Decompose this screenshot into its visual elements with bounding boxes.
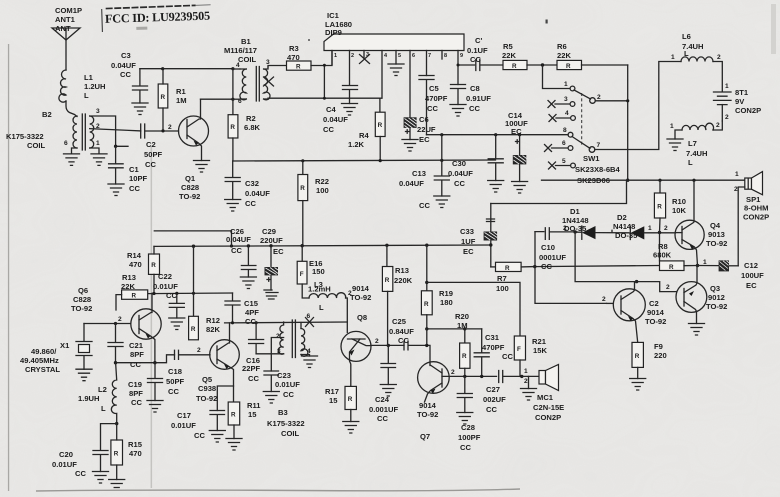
pin 9 lead [457,51,459,85]
svg-text:1.2K: 1.2K [348,140,365,149]
transistor Q1 C828 [179,99,209,201]
svg-text:22K: 22K [557,51,571,60]
wire contact 7 to L6 [595,62,681,150]
svg-text:15K: 15K [533,346,547,355]
wire R5/R6 node down to switch pole 1 [543,65,570,89]
wire C2 to Q1 base [145,130,179,132]
svg-text:EC: EC [463,247,474,256]
resistor R14 470 [127,246,160,293]
svg-text:L: L [84,91,89,100]
svg-text:002UF: 002UF [483,395,506,404]
capacitor C8 0.91UF [451,84,492,113]
svg-text:C30: C30 [452,159,466,168]
svg-text:COIL: COIL [238,55,257,64]
svg-text:C18: C18 [168,367,182,376]
svg-text:4: 4 [236,62,240,69]
capacitor C4 0.04UF [323,86,358,135]
svg-text:470PF: 470PF [425,94,448,103]
svg-text:L: L [688,158,693,167]
ground C24 [380,385,396,397]
svg-text:C938: C938 [198,384,216,393]
capacitor C20 0.01UF [52,424,117,478]
svg-text:3: 3 [277,348,281,355]
resistor R17 15 [325,386,356,421]
svg-text:Q3: Q3 [710,284,720,293]
svg-text:CC: CC [130,360,141,369]
antenna ANT1 [52,6,82,40]
svg-text:R: R [657,204,662,211]
capacitor C18 50PF [166,350,210,396]
svg-text:Q6: Q6 [78,286,88,295]
svg-text:B3: B3 [278,408,288,417]
svg-text:C2N-15E: C2N-15E [533,403,564,412]
svg-text:0.04UF: 0.04UF [399,179,424,188]
svg-text:R2: R2 [246,114,256,123]
svg-text:C1: C1 [129,165,139,174]
transistor Q8 9014 [341,284,371,386]
svg-text:R: R [378,122,383,129]
wire antenna to L1 [65,40,67,70]
svg-text:0.01UF: 0.01UF [171,421,196,430]
switch SW1 contact 6 with X [545,140,573,152]
svg-text:100: 100 [496,284,509,293]
svg-text:L1: L1 [84,73,94,82]
wire to microphone [522,375,539,377]
svg-text:C29: C29 [262,227,276,236]
svg-text:R: R [635,353,640,360]
svg-text:22PF: 22PF [242,364,261,373]
svg-text:7: 7 [597,142,601,149]
svg-text:CC: CC [398,336,409,345]
svg-text:R11: R11 [247,401,261,410]
svg-text:L7: L7 [688,139,697,148]
svg-text:C4: C4 [326,105,336,114]
svg-text:R21: R21 [532,337,547,346]
svg-text:R: R [462,353,467,360]
wire mic ground stub [528,376,530,388]
svg-text:220UF: 220UF [260,236,283,245]
svg-text:3: 3 [564,96,568,103]
svg-text:CC: CC [470,55,481,64]
svg-text:1: 1 [670,123,674,130]
svg-text:470: 470 [129,260,142,269]
svg-text:C828: C828 [73,295,91,304]
svg-text:0.91UF: 0.91UF [466,94,491,103]
svg-text:CON2P: CON2P [535,413,561,422]
svg-text:SK23X8-6B4: SK23X8-6B4 [575,165,621,174]
battery BT1 9V [714,83,762,121]
node diode output [658,231,661,234]
svg-text:1M: 1M [457,321,468,330]
wire B1 pin4 to bias bus [233,68,240,70]
capacitor C24 0.001UF [369,345,398,423]
svg-text:CC: CC [460,443,471,452]
svg-text:TO-92: TO-92 [71,304,92,313]
ground C30 [488,181,504,193]
node Q3 drive tap [573,230,576,233]
svg-text:2: 2 [734,186,738,193]
svg-text:3: 3 [366,52,369,58]
transistor Q5 C938 [196,323,239,403]
wire L3 to Q8 base [346,298,348,332]
svg-text:EC: EC [419,135,430,144]
svg-text:C22: C22 [158,272,172,281]
svg-text:R1: R1 [176,87,186,96]
svg-text:F: F [517,346,521,353]
svg-text:C2: C2 [146,140,156,149]
svg-text:15: 15 [248,410,257,419]
svg-text:0.04UF: 0.04UF [226,235,251,244]
diode D2 N4148 [613,213,676,240]
svg-text:COIL: COIL [281,429,300,438]
svg-text:22K: 22K [121,282,135,291]
svg-text:R: R [348,396,353,403]
svg-text:0.04UF: 0.04UF [245,189,270,198]
ground R9 [630,379,646,391]
inductor L1 1.2UH [59,70,106,102]
svg-text:0001UF: 0001UF [539,253,566,262]
svg-text:0.01UF: 0.01UF [153,282,178,291]
resistor R19 180 [421,245,453,329]
svg-text:5: 5 [398,53,401,59]
wire B2 pin2 to C2 [90,129,141,131]
svg-text:22K: 22K [502,51,516,60]
wire switch feed box line [491,180,627,203]
ground B2 right [91,154,107,166]
svg-text:SW1: SW1 [583,154,600,163]
pin number ticks [334,52,463,59]
ground B2 left [64,154,80,166]
svg-text:Q1: Q1 [185,174,196,183]
svg-text:8: 8 [444,53,447,59]
ground C19 [147,401,163,413]
ground C22 [169,318,185,330]
svg-text:R12: R12 [206,316,220,325]
ground C6 [402,140,418,152]
svg-text:9V: 9V [735,97,745,106]
svg-text:5: 5 [562,158,566,165]
svg-text:0.01UF: 0.01UF [275,380,300,389]
svg-text:CC: CC [245,199,256,208]
wire Q3 base drive [575,232,676,292]
svg-text:470: 470 [129,449,142,458]
svg-text:C6: C6 [419,115,429,124]
svg-text:2: 2 [716,122,720,129]
ground C8 [450,105,466,117]
svg-text:CC: CC [166,291,177,300]
resistor R7 100 [491,262,535,293]
svg-text:TO-92: TO-92 [196,394,217,403]
svg-text:R3: R3 [289,44,299,53]
svg-text:2: 2 [666,284,670,291]
svg-text:0.1UF: 0.1UF [467,46,488,55]
svg-text:2: 2 [118,316,122,323]
svg-text:MC1: MC1 [537,393,554,402]
svg-text:470PF: 470PF [482,343,505,352]
svg-text:R: R [512,63,517,70]
svg-text:TO-92: TO-92 [417,410,438,419]
svg-text:C20: C20 [59,450,73,459]
svg-text:R: R [424,301,429,308]
svg-text:CON2P: CON2P [735,106,761,115]
svg-text:B1: B1 [241,37,251,46]
no-connect X on B1 secondary [264,77,274,86]
pin 1 stub [331,51,333,65]
svg-text:CC: CC [377,414,388,423]
svg-text:100: 100 [316,186,329,195]
svg-text:EC: EC [273,247,284,256]
svg-text:50PF: 50PF [166,377,185,386]
svg-text:R6: R6 [557,42,567,51]
wire R3 to IC pin1 [311,51,332,66]
svg-text:Q8: Q8 [357,313,367,322]
node L2 bottom [115,422,118,425]
svg-text:C8: C8 [470,84,480,93]
svg-text:2: 2 [197,347,201,354]
capacitor C7 0.1UF [467,36,503,71]
svg-text:C': C' [475,36,482,45]
wire R7 output node [534,266,658,267]
svg-text:220K: 220K [394,276,413,285]
svg-text:B2: B2 [42,110,52,119]
svg-text:CC: CC [75,469,86,478]
svg-text:C33: C33 [460,227,474,236]
svg-text:6: 6 [412,53,415,59]
svg-text:2: 2 [451,369,455,376]
wire Q7 collector riser [427,329,430,364]
svg-text:2: 2 [725,114,729,121]
switch SW1 contact 2 [590,98,596,104]
svg-text:8PF: 8PF [129,389,143,398]
svg-text:C23: C23 [277,371,291,380]
svg-text:2: 2 [168,124,172,131]
svg-text:R7: R7 [497,274,507,283]
svg-text:R: R [151,262,156,269]
svg-text:ANT1: ANT1 [55,15,76,24]
wire Q5 emitter tee [217,386,233,411]
capacitor C14 100UF electrolytic [505,111,528,182]
wire C10 branch vertical [535,232,607,304]
svg-text:2: 2 [375,338,379,345]
svg-text:15: 15 [329,396,338,405]
wire Q7 base line to mic [442,375,497,377]
svg-text:2: 2 [276,333,280,340]
capacitor C16 22PF [242,323,264,383]
svg-text:0.84UF: 0.84UF [389,327,414,336]
svg-text:DO-35: DO-35 [615,231,638,240]
svg-text:CC: CC [454,179,465,188]
capacitor C22 0.01UF [153,272,184,318]
pin 7 lead to C5 [426,51,428,76]
svg-text:DO-35: DO-35 [564,224,587,233]
FCC ID box [102,5,212,32]
wire Q1 collector to B1 pin6 [201,98,233,100]
resistor R18 220K [382,245,412,345]
capacitor C23 0.01UF [264,371,300,399]
svg-text:6: 6 [64,140,68,147]
svg-text:C27: C27 [486,385,500,394]
wire B+ rail vertical [627,65,629,180]
speaker SP1 8-OHM [734,171,769,222]
capacitor C33 1UF electrolytic [460,227,498,267]
svg-text:CC: CC [248,374,259,383]
svg-text:8-OHM: 8-OHM [744,204,768,213]
resistor R22 100 [298,161,329,246]
svg-text:CC: CC [168,387,179,396]
op-amp U1 IC1 LA1680 body [324,11,464,51]
pin 4 lead [380,51,382,99]
svg-text:470: 470 [287,53,300,62]
svg-text:9013: 9013 [708,230,725,239]
capacitor C31 470PF [474,329,513,377]
svg-text:8PF: 8PF [130,350,144,359]
svg-text:L: L [684,49,689,58]
resistor R9 220 [632,342,667,379]
resistor R1 1M [158,69,186,131]
capacitor C15 4PF [225,293,259,326]
wire L1 to B2 [66,101,77,117]
resistor R20 1M [455,312,470,376]
svg-text:TO-92: TO-92 [706,239,727,248]
svg-text:100PF: 100PF [458,433,481,442]
svg-text:C10: C10 [541,243,555,252]
svg-text:Q5: Q5 [202,375,213,384]
svg-text:CRYSTAL: CRYSTAL [25,365,60,374]
microphone MC1 [533,365,564,423]
svg-text:4PF: 4PF [245,308,259,317]
wire R6 to B+ rail corner [582,64,628,66]
svg-text:R10: R10 [672,197,686,206]
wire L6 to battery [713,62,722,92]
svg-text:TO-92: TO-92 [645,317,666,326]
svg-text:1: 1 [524,368,528,375]
svg-text:1.2mH: 1.2mH [308,285,331,294]
svg-text:2: 2 [351,53,354,59]
resistor R6 22K [557,42,582,70]
switch SW1 contact 1 [570,86,575,91]
wire B1 pin6 [233,98,240,100]
ground X1 [76,369,92,381]
svg-text:K175-3322: K175-3322 [6,132,44,141]
wire lower bus [154,245,491,246]
svg-text:0.04UF: 0.04UF [111,61,136,70]
wire R5 to R6 [527,64,557,66]
ground C28 [457,413,473,425]
inductor L6 7.4UH [671,32,721,62]
svg-text:2: 2 [524,378,528,385]
polarity mark C33 [487,219,495,222]
svg-text:R20: R20 [455,312,469,321]
wire pin1 net vertical [323,65,325,99]
wire speaker supply bus [542,179,745,181]
svg-text:M116/117: M116/117 [224,46,257,55]
svg-text:C3: C3 [121,51,131,60]
svg-text:CC: CC [419,201,430,210]
switch SW1 contact 7 [589,147,595,153]
svg-text:TO-92: TO-92 [179,192,200,201]
svg-text:6.8K: 6.8K [244,123,261,132]
capacitor C12 100UF electrolytic [698,260,765,290]
svg-text:50PF: 50PF [144,150,163,159]
svg-text:R5: R5 [503,42,513,51]
svg-text:R: R [161,94,166,101]
wire Q8 collector line [371,344,404,346]
resistor R5 22K [502,42,527,70]
svg-text:1.9UH: 1.9UH [78,394,100,403]
wire stub link into bus [154,231,231,246]
svg-text:1.2UH: 1.2UH [84,82,106,91]
svg-text:7: 7 [428,53,431,59]
resistor R12 82K [189,246,221,340]
svg-text:C19: C19 [128,380,142,389]
transistor Q3 9012 [666,266,727,324]
svg-text:0.001UF: 0.001UF [369,405,398,414]
svg-text:F: F [300,271,304,278]
wire C16 to B3 bottom [256,353,284,355]
svg-text:100UF: 100UF [741,271,764,280]
svg-text:DIP9: DIP9 [325,28,342,37]
svg-text:8T1: 8T1 [735,88,749,97]
resistor R15 470 [111,424,143,480]
svg-text:R: R [132,293,137,300]
diode D1 1N4148 [562,207,629,239]
ground C4 [342,104,358,116]
svg-text:C5: C5 [429,84,439,93]
capacitor C1 10PF [109,146,148,193]
node R1 base [161,129,164,132]
transformer B1 M116/117 [224,37,270,105]
svg-text:C32: C32 [245,179,259,188]
svg-text:TO-92: TO-92 [350,293,371,302]
ground MC1 [521,389,537,401]
svg-text:1: 1 [564,81,568,88]
svg-text:8: 8 [563,127,567,134]
switch SW1 pole link dashed [581,93,583,146]
wire C33 drop [490,204,492,232]
node C1 tap [114,145,117,148]
svg-text:1: 1 [96,140,100,147]
svg-text:2: 2 [664,225,668,232]
ground B3 pin4 [302,356,318,368]
svg-text:K175-3322: K175-3322 [267,419,305,428]
capacitor C29 220UF electrolytic [260,227,284,290]
svg-text:R19: R19 [439,289,453,298]
svg-text:R: R [191,326,196,333]
resistor R8 680K [653,242,698,271]
svg-text:X1: X1 [60,341,70,350]
capacitor C3 0.04UF [111,51,148,103]
svg-text:0.01UF: 0.01UF [52,460,77,469]
svg-text:1: 1 [735,171,739,178]
svg-text:9014: 9014 [352,284,370,293]
svg-text:Q7: Q7 [420,432,430,441]
svg-text:COIL: COIL [27,141,46,150]
svg-text:L6: L6 [682,32,691,41]
no-connect X at B3 pin6 [306,318,314,327]
capacitor C25 0.84UF [389,317,427,350]
capacitor C5 470PF [419,76,448,135]
svg-text:49.860/: 49.860/ [31,347,57,356]
switch SW1 lever upper [574,90,591,99]
svg-text:R14: R14 [127,251,142,260]
wire top bias bus C3-R1-B1 [140,68,233,70]
svg-text:L2: L2 [98,385,107,394]
ground C23 [263,392,279,404]
wire B1 secondary bottom to R4 feed [268,98,380,112]
wire Q6 base line [84,323,131,325]
capacitor C6 22UF electrolytic [404,115,436,144]
svg-text:220: 220 [654,351,667,360]
